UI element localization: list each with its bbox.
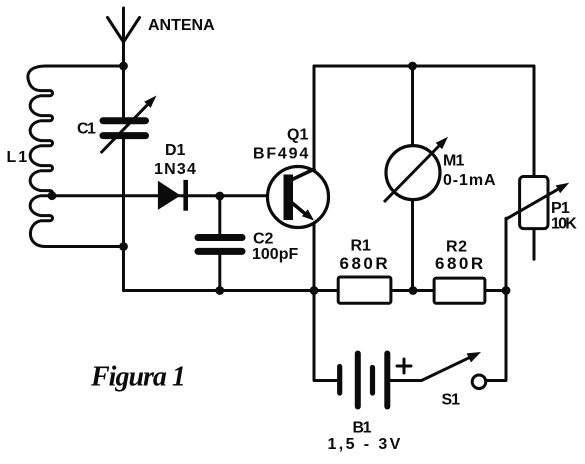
diode D1 (158, 180, 188, 211)
node L1 tap (48, 191, 57, 200)
inductor L1 with top wire (28, 66, 124, 247)
svg-text:C2: C2 (253, 231, 274, 248)
battery plus sign (397, 359, 411, 373)
wire bottom rail (124, 289, 507, 292)
switch S1 contact (472, 375, 486, 389)
svg-text:R1: R1 (351, 238, 372, 255)
svg-text:S1: S1 (442, 392, 461, 409)
svg-text:L1: L1 (7, 149, 30, 166)
wire P1 top feed (533, 66, 536, 177)
svg-text:D1: D1 (165, 142, 186, 159)
battery B1 cells (340, 354, 388, 407)
wire switch to right column (486, 291, 506, 381)
capacitor C1 plates (103, 121, 146, 136)
svg-text:B1: B1 (353, 420, 372, 437)
wire C1 branch vertical (122, 66, 125, 117)
wire L1 tap to D1 and Q1 base (52, 194, 284, 197)
wire battery left feed (314, 291, 338, 381)
resistor R1 (338, 277, 391, 303)
wire C2 lower vertical (218, 255, 221, 291)
wire C1 below to rail corner (122, 139, 125, 291)
antenna right arm (124, 18, 140, 43)
wire M1 column (411, 66, 414, 291)
wire P1 bottom stub (533, 229, 536, 260)
node L1-top / antenna junction (119, 62, 128, 71)
node M1 bottom on rail (409, 286, 418, 295)
node top rail / M1 (408, 62, 417, 71)
svg-text:R2: R2 (446, 239, 468, 256)
transistor Q1 (268, 167, 329, 228)
meter M1 (384, 137, 448, 202)
node L1 bottom (119, 242, 128, 251)
wire C2 vertical (218, 196, 221, 234)
svg-text:ANTENA: ANTENA (148, 17, 215, 34)
svg-text:1,5 - 3V: 1,5 - 3V (328, 436, 403, 453)
svg-text:1N34: 1N34 (154, 161, 197, 178)
switch S1 arm (422, 352, 482, 381)
node D1 cathode / C2 top (215, 192, 224, 201)
capacitor C2 plates (198, 238, 242, 252)
antenna mast (122, 8, 125, 66)
wire top rail (314, 65, 534, 68)
svg-text:BF494: BF494 (253, 146, 310, 163)
wire P1 wiper drop (506, 218, 508, 290)
antenna left arm (108, 18, 124, 43)
svg-text:100pF: 100pF (252, 246, 298, 263)
wire battery to switch (391, 379, 422, 382)
node emitter-battery on rail (310, 286, 319, 295)
svg-text:0-1mA: 0-1mA (443, 172, 496, 189)
svg-text:P1: P1 (551, 200, 570, 217)
resistor R2 (434, 278, 485, 303)
svg-text:C1: C1 (77, 121, 96, 138)
svg-text:Figura 1: Figura 1 (90, 362, 185, 393)
node C2 bottom on rail (215, 286, 224, 295)
svg-text:10K: 10K (551, 216, 577, 233)
node R2-switch-wiper (502, 286, 511, 295)
svg-text:680R: 680R (340, 254, 391, 273)
potentiometer P1 wiper arrow (508, 183, 570, 218)
capacitor C1 arrow (101, 96, 157, 154)
svg-text:M1: M1 (443, 153, 465, 170)
potentiometer P1 body (520, 177, 548, 229)
wire Q1 collector-emitter column (313, 66, 316, 291)
svg-text:680R: 680R (435, 254, 486, 273)
svg-text:Q1: Q1 (287, 127, 308, 144)
